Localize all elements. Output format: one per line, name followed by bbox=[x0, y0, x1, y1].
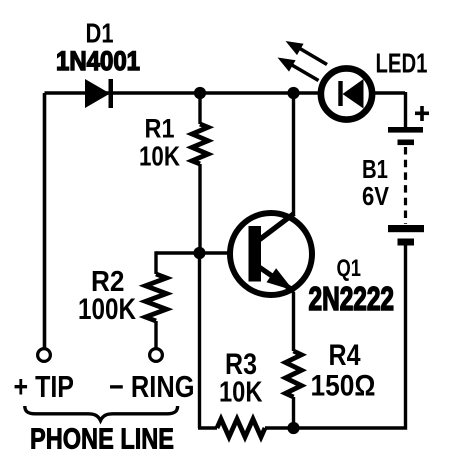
svg-text:Q1: Q1 bbox=[337, 255, 362, 282]
transistor Q1 bbox=[230, 213, 312, 295]
resistor R2 bbox=[146, 274, 167, 321]
svg-text:2N2222: 2N2222 bbox=[309, 280, 395, 317]
wire emitter to R4 bbox=[292, 292, 295, 351]
LED arrow upper bbox=[286, 41, 328, 65]
svg-text:LED1: LED1 bbox=[376, 48, 428, 79]
node junction at collector rail bbox=[287, 87, 299, 99]
wire battery positive stub bbox=[404, 92, 407, 128]
svg-text:100K: 100K bbox=[78, 293, 136, 326]
svg-text:R1: R1 bbox=[145, 114, 175, 144]
svg-text:+ TIP: + TIP bbox=[14, 370, 75, 404]
svg-text:D1: D1 bbox=[86, 18, 114, 49]
brace phone line bbox=[25, 406, 178, 421]
battery B1 bbox=[388, 127, 424, 246]
wire R2 to RING terminal bbox=[154, 321, 157, 348]
svg-text:1N4001: 1N4001 bbox=[56, 46, 140, 76]
svg-text:− RING: − RING bbox=[109, 370, 195, 404]
terminal RING bbox=[150, 349, 163, 362]
wire base node down to R3 bbox=[198, 253, 217, 428]
wire left rail down to TIP terminal bbox=[43, 93, 47, 348]
svg-text:PHONE LINE: PHONE LINE bbox=[30, 424, 174, 456]
wire R1 to base node bbox=[198, 164, 201, 253]
svg-text:R4: R4 bbox=[329, 339, 361, 372]
diode D1 bbox=[85, 79, 113, 108]
svg-text:150Ω: 150Ω bbox=[311, 370, 376, 403]
battery plus sign bbox=[415, 106, 429, 121]
wire collector bbox=[292, 93, 295, 216]
svg-text:10K: 10K bbox=[219, 377, 263, 409]
wire R4 to bottom node bbox=[292, 397, 295, 428]
resistor R1 bbox=[192, 124, 208, 164]
LED arrow lower bbox=[278, 58, 319, 81]
LED LED1 bbox=[321, 68, 372, 119]
node junction at R1 top bbox=[194, 87, 206, 99]
svg-text:10K: 10K bbox=[139, 141, 180, 172]
resistor R4 bbox=[286, 351, 302, 397]
wire R1 chain top bbox=[198, 93, 201, 124]
wire top rail from +TIP rail through D1 to LED and battery bbox=[45, 91, 406, 95]
wire base bbox=[156, 251, 250, 254]
wire R2 top bbox=[154, 251, 157, 274]
resistor R3 bbox=[217, 419, 265, 437]
terminal TIP bbox=[38, 349, 51, 362]
svg-text:6V: 6V bbox=[362, 181, 390, 211]
node junction at base bbox=[193, 247, 205, 259]
svg-text:B1: B1 bbox=[362, 154, 388, 184]
wire bottom right rail to battery negative bbox=[294, 245, 406, 428]
wire R3 to emitter node bbox=[265, 426, 293, 429]
node junction at bottom bbox=[287, 422, 299, 434]
